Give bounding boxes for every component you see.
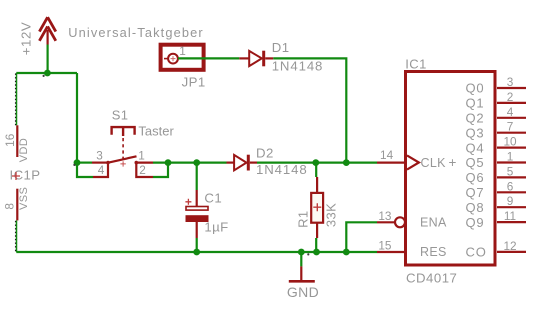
svg-text:VSS: VSS: [18, 187, 30, 210]
capacitor C1: [185, 190, 208, 238]
svg-text:7: 7: [507, 120, 514, 134]
resistor R1: [311, 177, 323, 238]
svg-text:Q7: Q7: [466, 185, 485, 200]
junction C1 branch: [193, 159, 200, 166]
pin VDD 16 of IC1P: [16, 125, 18, 157]
clock arrow: [407, 155, 419, 169]
IC1 box: [406, 72, 496, 266]
svg-text:Q1: Q1: [466, 96, 485, 111]
svg-text:Q3: Q3: [466, 125, 485, 140]
junction D1 drop / CLK: [343, 159, 350, 166]
wire R1 to bottom rail: [315, 238, 317, 252]
svg-text:1µF: 1µF: [204, 220, 228, 235]
svg-text:Q6: Q6: [466, 170, 485, 185]
svg-text:ENA: ENA: [420, 216, 447, 230]
svg-text:Q8: Q8: [466, 200, 485, 215]
junction ENA drop: [343, 249, 350, 256]
svg-text:3: 3: [96, 148, 103, 162]
wire pin1 to C1 branch: [153, 162, 227, 164]
svg-text:R1: R1: [296, 210, 311, 227]
svg-text:2: 2: [507, 90, 514, 104]
svg-text:RES: RES: [420, 245, 447, 259]
svg-text:6: 6: [507, 179, 514, 193]
junction GND: [298, 249, 305, 256]
svg-text:15: 15: [378, 239, 392, 253]
svg-text:3: 3: [507, 75, 514, 89]
resistor R1 branch top wire: [315, 163, 317, 177]
origin cross IC1P: [12, 172, 20, 180]
svg-text:VDD: VDD: [18, 138, 30, 162]
wire ENA net: [346, 222, 377, 252]
pin Q0 3: [466, 75, 527, 96]
junction top rail / +12V: [44, 70, 51, 77]
svg-text:8: 8: [3, 203, 17, 210]
svg-text:9: 9: [507, 194, 514, 208]
pin CO 12: [466, 239, 527, 260]
pin ENA 13: [377, 221, 394, 223]
svg-text:1: 1: [138, 148, 145, 162]
svg-text:JP1: JP1: [182, 74, 206, 89]
inversion bubble ENA: [395, 217, 405, 227]
svg-text:IC1P: IC1P: [10, 167, 41, 182]
origin speck near S1 junction: [73, 164, 75, 166]
svg-text:D1: D1: [272, 40, 290, 55]
svg-text:S1: S1: [112, 108, 129, 123]
svg-text:Q2: Q2: [466, 111, 485, 126]
wire top rail down to CLK rail: [76, 73, 78, 163]
svg-text:+12V: +12V: [19, 22, 34, 56]
svg-text:14: 14: [380, 148, 394, 162]
svg-text:Q4: Q4: [466, 140, 485, 155]
wire top rail: [16, 72, 77, 74]
svg-text:CD4017: CD4017: [406, 270, 457, 285]
svg-text:Q9: Q9: [466, 215, 485, 230]
pin Q8 9: [466, 194, 527, 215]
wire rail corner to pin3: [77, 162, 92, 164]
pin Q2 4: [466, 105, 527, 126]
pin RES 15: [377, 251, 404, 253]
svg-text:CLK: CLK: [421, 156, 447, 170]
wire dotted VDD feed: [16, 73, 18, 125]
svg-text:13: 13: [378, 209, 392, 223]
svg-text:CO: CO: [466, 245, 487, 260]
svg-text:D2: D2: [256, 146, 274, 161]
junction S1 loop: [165, 159, 172, 166]
diode D1 1N4148: [239, 51, 273, 67]
wire left loop of S1: [77, 163, 93, 177]
svg-text:Q0: Q0: [466, 81, 485, 96]
svg-text:Universal-Taktgeber: Universal-Taktgeber: [68, 25, 204, 40]
wire dotted VSS to bottom rail: [16, 220, 18, 252]
svg-text:4: 4: [507, 105, 514, 119]
origin speck near GND junction: [307, 253, 309, 255]
svg-text:5: 5: [507, 164, 514, 178]
wire GND stem: [300, 252, 302, 266]
wire right loop of S1: [153, 163, 168, 177]
svg-text:12: 12: [503, 239, 516, 253]
svg-text:1: 1: [179, 44, 186, 58]
wire JP1 to D1: [178, 57, 239, 59]
junction R1 top: [312, 159, 319, 166]
pin 2 of S1: [136, 163, 153, 177]
pin Q4 10: [466, 135, 527, 156]
svg-text:IC1: IC1: [405, 57, 426, 72]
pin 4 of S1: [93, 163, 108, 177]
switch S1 actuator: [112, 127, 135, 159]
connector JP1 socket circle pin 1: [164, 54, 178, 64]
svg-text:11: 11: [504, 209, 516, 223]
junction R1 bottom: [313, 249, 320, 256]
svg-text:2: 2: [139, 163, 146, 177]
svg-text:10: 10: [503, 135, 517, 149]
pin VSS 8 of IC1P: [16, 189, 18, 221]
pin Q5 1: [466, 150, 527, 171]
pin Q1 2: [466, 90, 527, 111]
svg-text:Q5: Q5: [466, 155, 485, 170]
pin Q6 5: [466, 164, 527, 185]
junction C1 bottom: [193, 249, 200, 256]
wire bottom rail: [16, 251, 377, 253]
ground symbol GND: [289, 266, 315, 281]
svg-text:1: 1: [507, 150, 514, 164]
wire +12V stem to top rail: [46, 45, 48, 74]
svg-text:C1: C1: [204, 190, 222, 205]
pin CLK 14: [377, 162, 404, 164]
svg-text:+: +: [449, 155, 457, 170]
connector JP1 box: [161, 45, 204, 70]
svg-text:Taster: Taster: [138, 124, 174, 139]
wire C1 to bottom rail: [196, 238, 198, 252]
switch S1 contacts: [92, 156, 153, 166]
svg-text:1N4148: 1N4148: [256, 162, 308, 177]
svg-text:1N4148: 1N4148: [272, 58, 324, 73]
origin speck near +12V junction: [43, 75, 45, 77]
supply symbol +12V: [39, 17, 55, 44]
pin Q3 7: [466, 120, 527, 141]
junction rail corner left: [74, 159, 81, 166]
svg-text:4: 4: [98, 163, 105, 177]
svg-text:GND: GND: [287, 284, 319, 300]
svg-text:33K: 33K: [324, 203, 339, 227]
svg-text:16: 16: [3, 133, 17, 147]
pin Q7 6: [466, 179, 527, 200]
capacitor C1 branch wire: [196, 163, 198, 190]
wire D1 to corner and down to CLK rail: [273, 58, 346, 162]
wire D2 to CLK pin: [257, 162, 377, 164]
pin Q9 11: [466, 209, 527, 230]
diode D2 1N4148: [227, 155, 258, 171]
